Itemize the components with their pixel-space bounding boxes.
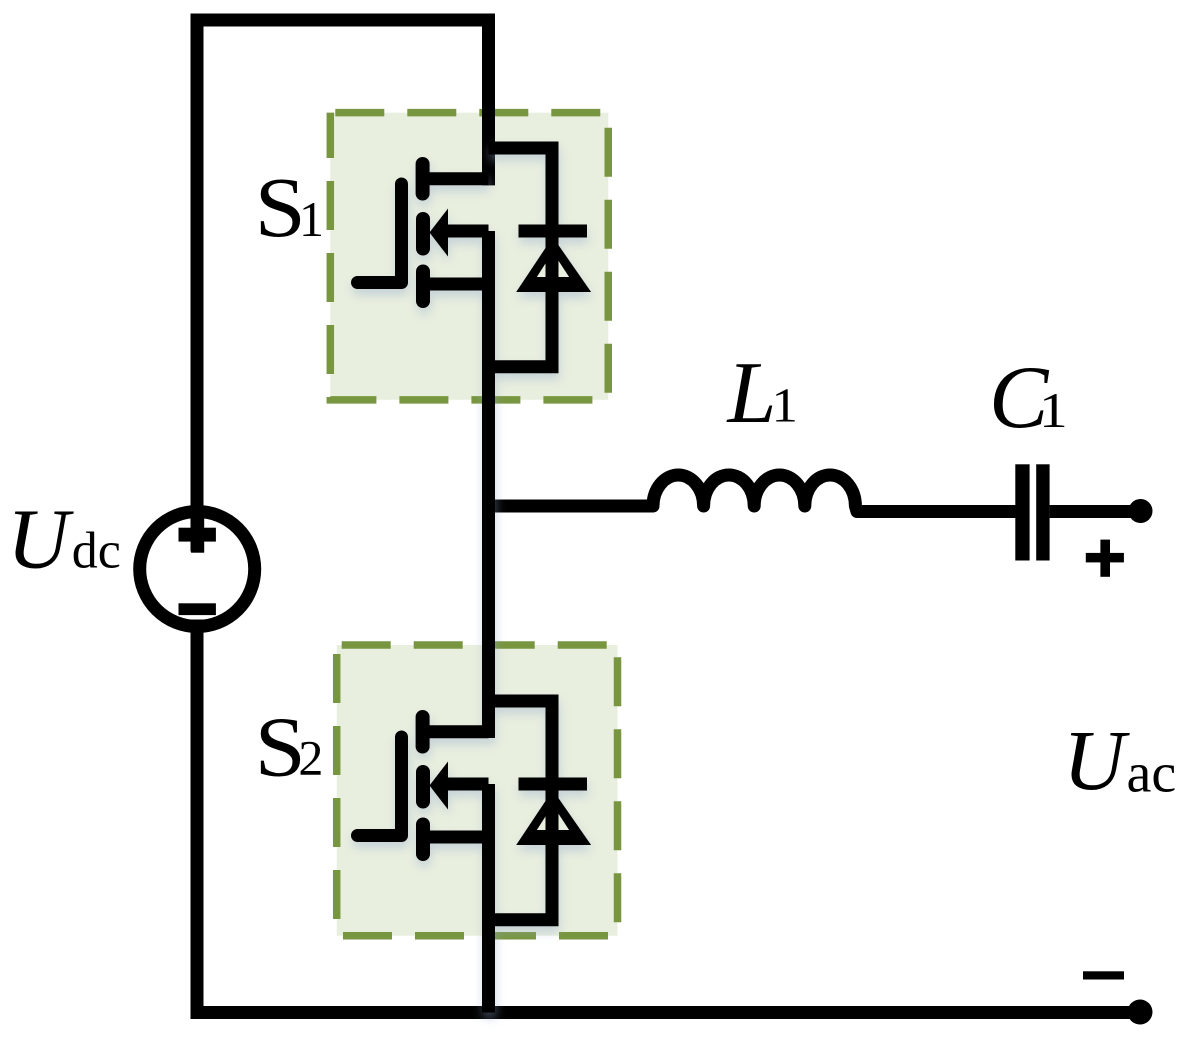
svg-text:U: U <box>1063 712 1130 808</box>
svg-text:U: U <box>7 490 74 586</box>
svg-text:1: 1 <box>1039 382 1068 438</box>
svg-text:L: L <box>726 345 777 442</box>
svg-text:2: 2 <box>298 730 323 786</box>
svg-text:ac: ac <box>1127 742 1177 804</box>
svg-text:1: 1 <box>299 191 324 247</box>
svg-text:1: 1 <box>772 379 798 433</box>
svg-text:dc: dc <box>72 523 121 580</box>
